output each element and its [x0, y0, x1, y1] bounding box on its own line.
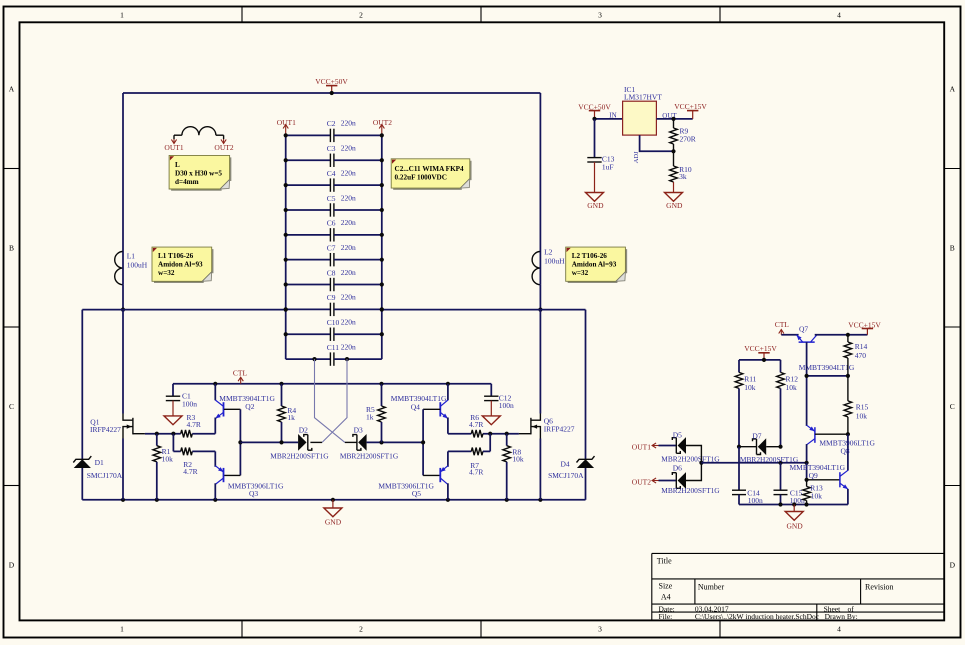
junctions CTL rail — [213, 382, 217, 386]
wire R15 to Q9 — [847, 434, 849, 470]
svg-text:Revision: Revision — [865, 582, 893, 591]
svg-text:C5: C5 — [327, 194, 336, 203]
transistor Q7 MMBT3904LT1G — [799, 341, 815, 343]
transistor Q2 MMBT3904LT1G — [223, 402, 225, 416]
inductor L2 — [532, 252, 540, 285]
junctions cap bank buses — [284, 133, 288, 137]
wire OUT1 node row — [82, 309, 285, 311]
svg-text:w=32: w=32 — [572, 269, 589, 277]
junction R11 D7 — [737, 445, 741, 449]
svg-text:B: B — [950, 244, 955, 253]
resistor R15 10k — [847, 376, 849, 401]
power port VCC+50V reg — [589, 110, 600, 112]
transistor Q3 MMBT3906LT1G — [223, 468, 225, 482]
wire D2 cathode — [310, 441, 322, 443]
junction R5 out — [379, 440, 383, 444]
svg-text:C2...C11 WIMA FKP4: C2...C11 WIMA FKP4 — [395, 165, 465, 173]
svg-text:MBR2H200SFT1G: MBR2H200SFT1G — [340, 452, 399, 461]
ground C1 — [172, 401, 174, 416]
wire Q4 base — [423, 408, 440, 410]
wire Q8 to Q9 base — [806, 463, 808, 480]
wire driver out left — [240, 441, 298, 443]
wire D1 upper — [81, 310, 83, 460]
diode D3 MBR2H200SFT1G — [358, 434, 366, 451]
resistor R9 270R — [673, 119, 675, 128]
svg-text:100n: 100n — [499, 401, 514, 410]
svg-text:C8: C8 — [327, 268, 336, 277]
wire D3 cathode — [345, 441, 357, 443]
svg-text:100uH: 100uH — [544, 257, 565, 266]
svg-text:4.7R: 4.7R — [469, 420, 483, 429]
capacitor C12 100n — [490, 384, 492, 396]
port OUT2 cap bank — [381, 125, 383, 136]
svg-text:VCC+15V: VCC+15V — [848, 320, 881, 329]
svg-text:4.7R: 4.7R — [469, 468, 483, 477]
wire L1 to OUT1 node — [122, 285, 124, 310]
transistor Q8 MMBT3906LT1G — [814, 427, 816, 443]
svg-text:C10: C10 — [327, 318, 340, 327]
svg-text:2: 2 — [359, 11, 363, 20]
svg-text:B: B — [9, 244, 14, 253]
wire Q5 collector — [447, 483, 449, 500]
svg-text:Q8: Q8 — [841, 447, 850, 456]
ground ctl — [793, 505, 795, 512]
svg-text:D1: D1 — [95, 458, 104, 467]
resistor R4 1k — [281, 384, 283, 406]
wire D1 lower — [81, 468, 83, 500]
resistor R3 4.7R — [181, 430, 193, 438]
svg-text:VCC+50V: VCC+50V — [315, 77, 348, 86]
svg-text:VCC+15V: VCC+15V — [674, 102, 707, 111]
svg-text:220n: 220n — [341, 144, 356, 153]
port OUT2 coil — [223, 135, 225, 139]
svg-text:100uH: 100uH — [127, 260, 148, 269]
resistor R14 470 — [847, 335, 849, 342]
wire Q5 emitter — [447, 451, 449, 466]
junction D5 D6 — [699, 461, 703, 465]
resistor R10 3k — [673, 151, 675, 166]
junction top rail VCC — [330, 91, 334, 95]
wire base tie right — [422, 409, 424, 475]
svg-text:MBR2H200SFT1G: MBR2H200SFT1G — [270, 452, 329, 461]
junction reg out — [671, 117, 675, 121]
svg-text:100n: 100n — [182, 400, 197, 409]
svg-text:L: L — [175, 161, 180, 169]
wire D4 lower — [585, 468, 587, 500]
wire R14 cross — [807, 375, 848, 377]
wire cap bank left bus — [285, 135, 287, 359]
power port VCC+15V reg — [687, 110, 698, 112]
wire Q7 collector — [815, 334, 868, 336]
svg-text:GND: GND — [666, 201, 683, 210]
wire driver out right — [367, 441, 424, 443]
capacitor C9 220n — [286, 308, 331, 310]
resistor R5 1k — [381, 384, 383, 406]
wire OUT2 to D6 — [659, 480, 677, 482]
svg-text:MMBT3904LT1G: MMBT3904LT1G — [391, 394, 447, 403]
wire Q3 base — [224, 474, 241, 476]
wire Q6 drain — [539, 310, 541, 414]
svg-text:1uF: 1uF — [602, 163, 614, 172]
resistor R11 10k — [738, 360, 740, 373]
wire cross right — [322, 359, 347, 442]
svg-text:Q2: Q2 — [245, 402, 254, 411]
junctions bottom rail — [121, 498, 125, 502]
wire OUT1 to D5 — [659, 445, 677, 447]
wire D5 anode — [686, 446, 701, 463]
resistor R13 10k — [806, 480, 808, 487]
wire Q9 base — [807, 479, 840, 481]
svg-text:L2: L2 — [544, 248, 553, 257]
wire Q3 collector — [214, 483, 216, 500]
wire Q7 base — [806, 342, 808, 426]
svg-text:Q9: Q9 — [809, 471, 818, 480]
svg-text:10k: 10k — [162, 455, 174, 464]
svg-text:D5: D5 — [673, 431, 682, 440]
note capacitor bank — [393, 161, 471, 189]
svg-text:CTL: CTL — [233, 368, 248, 377]
border zone tick marks — [241, 7, 243, 23]
junction R12 row — [778, 461, 782, 465]
resistor R2 4.7R — [173, 450, 180, 452]
svg-text:SMCJ170A: SMCJ170A — [548, 471, 584, 480]
wire Q4 emitter — [447, 418, 449, 434]
junction R12 D7 — [778, 445, 782, 449]
junction base tie right — [421, 440, 425, 444]
svg-text:220n: 220n — [341, 193, 356, 202]
wire ctl bottom rail — [739, 504, 848, 506]
svg-text:VCC+50V: VCC+50V — [578, 103, 611, 112]
svg-text:C4: C4 — [327, 169, 336, 178]
svg-text:1: 1 — [120, 625, 124, 634]
svg-text:D: D — [950, 561, 956, 570]
svg-text:OUT1: OUT1 — [277, 118, 296, 127]
wire VCC+50V top rail — [123, 92, 540, 94]
note L2 — [568, 249, 627, 282]
wire left bus upper — [122, 93, 124, 252]
ground main — [332, 500, 334, 508]
wire base tie left — [239, 409, 241, 475]
svg-text:D7: D7 — [752, 432, 761, 441]
svg-text:L2 T106-26: L2 T106-26 — [572, 252, 608, 260]
junctions ctl bottom — [778, 502, 782, 506]
svg-text:220n: 220n — [341, 119, 356, 128]
svg-text:R11: R11 — [744, 374, 756, 383]
port OUT1 cap bank — [285, 125, 287, 136]
svg-text:MBR2H200SFT1G: MBR2H200SFT1G — [661, 486, 720, 495]
svg-text:A: A — [950, 85, 956, 94]
junction R14 R15 — [846, 374, 850, 378]
svg-text:OUT2: OUT2 — [214, 143, 233, 152]
junction Q8 coll — [805, 461, 809, 465]
junction gate R1 — [155, 432, 159, 436]
svg-text:IRFP4227: IRFP4227 — [544, 424, 575, 433]
diode D4 SMCJ170A — [577, 459, 594, 468]
capacitor C15 100n — [774, 489, 788, 491]
ground C12 — [490, 401, 492, 416]
svg-text:220n: 220n — [341, 318, 356, 327]
svg-text:Title: Title — [657, 557, 672, 566]
wire Q5 base — [423, 474, 440, 476]
transistor Q6 IRFP4227 — [530, 418, 532, 435]
wire gate Q6 row — [448, 433, 471, 435]
svg-text:10k: 10k — [786, 383, 798, 392]
svg-text:ADJ: ADJ — [633, 151, 640, 163]
wire ADJ — [640, 135, 674, 151]
wire Q6 source — [539, 439, 541, 500]
svg-text:10k: 10k — [512, 454, 524, 463]
svg-text:220n: 220n — [341, 243, 356, 252]
svg-text:d=4mm: d=4mm — [175, 178, 199, 186]
junction C11 left tap — [312, 357, 316, 361]
resistor R12 10k — [780, 360, 782, 373]
wire R11 to C14 — [738, 447, 740, 491]
svg-text:C:\Users\..\2kW induction heat: C:\Users\..\2kW induction heater.SchDoc — [695, 612, 820, 621]
svg-text:Q4: Q4 — [411, 403, 420, 412]
svg-text:470: 470 — [855, 351, 867, 360]
capacitor C14 100n — [732, 489, 746, 491]
diode D6 MBR2H200SFT1G — [678, 472, 686, 489]
svg-text:GND: GND — [325, 518, 342, 527]
svg-text:A4: A4 — [661, 592, 671, 601]
svg-text:SMCJ170A: SMCJ170A — [87, 471, 123, 480]
wire R12 to C15 — [780, 463, 782, 490]
junction OUT row right bus — [380, 308, 384, 312]
svg-text:GND: GND — [786, 522, 803, 531]
svg-text:OUT1: OUT1 — [164, 143, 183, 152]
svg-text:D2: D2 — [299, 426, 308, 435]
wire Q2 emitter — [214, 418, 216, 434]
svg-text:3: 3 — [598, 625, 602, 634]
svg-text:GND: GND — [587, 201, 604, 210]
svg-text:R12: R12 — [786, 374, 799, 383]
svg-text:1k: 1k — [287, 413, 295, 422]
wire Q9 emitter — [847, 489, 849, 505]
junction Q7 base — [805, 374, 809, 378]
svg-text:C9: C9 — [327, 293, 336, 302]
svg-text:1k: 1k — [366, 413, 374, 422]
svg-text:C: C — [9, 402, 14, 411]
wire Q4 collector — [447, 384, 449, 401]
resistor R8 10k — [506, 434, 508, 446]
svg-text:D4: D4 — [561, 460, 570, 469]
capacitor C8 220n — [286, 284, 331, 286]
junction OUT1 node — [121, 308, 125, 312]
svg-text:A: A — [9, 85, 15, 94]
svg-text:R14: R14 — [855, 342, 868, 351]
svg-text:D6: D6 — [673, 463, 682, 472]
port CTL — [240, 377, 242, 384]
junction R4 out — [279, 440, 283, 444]
diode D1 SMCJ170A — [74, 459, 91, 468]
wire Q7 emitter — [781, 334, 798, 336]
svg-text:VCC+15V: VCC+15V — [744, 344, 777, 353]
wire Q8 collector — [806, 444, 808, 463]
junction Q8 base — [846, 432, 850, 436]
svg-text:C7: C7 — [327, 243, 336, 252]
capacitor C7 220n — [286, 259, 331, 261]
svg-text:C11: C11 — [327, 343, 339, 352]
svg-text:C2: C2 — [327, 119, 336, 128]
svg-text:270R: 270R — [680, 135, 696, 144]
svg-text:220n: 220n — [341, 168, 356, 177]
capacitor C5 220n — [286, 209, 331, 211]
svg-text:4: 4 — [837, 11, 841, 20]
wire bottom GND rail — [82, 499, 585, 501]
svg-text:OUT2: OUT2 — [632, 477, 651, 486]
junction OUT row left bus — [284, 308, 288, 312]
wire cap bank right bus — [381, 135, 383, 359]
svg-text:L1 T106-26: L1 T106-26 — [158, 252, 194, 260]
svg-text:D: D — [9, 561, 15, 570]
svg-text:MMBT3906LT1G: MMBT3906LT1G — [378, 481, 434, 490]
resistor R1 10k — [156, 434, 158, 446]
port CTL out — [780, 330, 782, 335]
svg-text:220n: 220n — [341, 218, 356, 227]
wire R2 drop — [172, 434, 174, 452]
transistor Q9 MMBT3904LT1G — [839, 472, 841, 487]
wire right bus upper — [539, 93, 541, 252]
junction reg input — [592, 117, 596, 121]
svg-text:C6: C6 — [327, 219, 336, 228]
svg-text:Amidon Al=93: Amidon Al=93 — [572, 261, 617, 269]
capacitor C3 220n — [286, 159, 331, 161]
svg-text:2: 2 — [359, 625, 363, 634]
diode D2 MBR2H200SFT1G — [298, 434, 306, 451]
svg-text:220n: 220n — [341, 268, 356, 277]
svg-text:LM317HVT: LM317HVT — [624, 93, 662, 102]
svg-text:OUT2: OUT2 — [373, 118, 392, 127]
svg-text:IRFP4227: IRFP4227 — [90, 425, 121, 434]
capacitor C1 100n — [172, 384, 174, 396]
svg-text:C3: C3 — [327, 144, 336, 153]
junction gate R7 — [488, 432, 492, 436]
svg-text:OUT1: OUT1 — [632, 442, 651, 451]
svg-text:File:: File: — [659, 612, 673, 621]
wire reg out — [656, 118, 692, 120]
diode D7 MBR2H200SFT1G — [739, 446, 757, 448]
wire reg input — [595, 118, 623, 120]
svg-text:3k: 3k — [679, 172, 687, 181]
svg-text:Q5: Q5 — [412, 489, 421, 498]
svg-text:Size: Size — [659, 581, 673, 590]
wire Q2 collector — [214, 384, 216, 401]
wire R7 drop — [489, 434, 491, 452]
junction C11 right tap — [345, 357, 349, 361]
svg-text:IN: IN — [609, 111, 616, 119]
wire Q1 source — [122, 439, 124, 500]
svg-text:10k: 10k — [856, 412, 868, 421]
wire diode row — [701, 462, 806, 464]
svg-text:Drawn By:: Drawn By: — [825, 612, 858, 621]
transistor Q5 MMBT3906LT1G — [439, 468, 441, 482]
power port VCC+15V ctl — [758, 352, 769, 354]
svg-text:4: 4 — [837, 625, 841, 634]
capacitor C6 220n — [286, 234, 331, 236]
junction R14 top — [846, 333, 850, 337]
svg-text:C: C — [950, 402, 955, 411]
inductor L work coil — [174, 134, 182, 136]
svg-text:220n: 220n — [341, 342, 356, 351]
transistor Q4 MMBT3904LT1G — [439, 402, 441, 416]
note L1 — [154, 249, 213, 282]
svg-text:3: 3 — [598, 11, 602, 20]
capacitor C2 220n — [286, 134, 331, 136]
junction gate R2 — [171, 432, 175, 436]
port OUT1 coil — [173, 135, 175, 139]
svg-text:4.7R: 4.7R — [183, 467, 197, 476]
wire cross left — [315, 359, 345, 442]
svg-text:220n: 220n — [341, 293, 356, 302]
wire Q1 drain — [122, 310, 124, 414]
power port VCC+15V q7 — [862, 328, 873, 330]
capacitor C13 1uF — [594, 119, 596, 158]
junction ADJ — [671, 149, 675, 153]
svg-text:Q3: Q3 — [249, 489, 258, 498]
capacitor C4 220n — [286, 184, 331, 186]
svg-text:Amidon Al=93: Amidon Al=93 — [158, 261, 203, 269]
junction Q9 base node — [805, 478, 809, 482]
diode D5 MBR2H200SFT1G — [678, 437, 686, 454]
svg-text:R15: R15 — [856, 403, 869, 412]
transistor Q1 IRFP4227 — [132, 418, 134, 435]
capacitor C10 220n — [286, 333, 331, 335]
wire CTL rail — [173, 383, 491, 385]
note work coil — [171, 157, 231, 190]
wire Q2 base — [224, 408, 241, 410]
svg-text:D3: D3 — [354, 426, 363, 435]
wire R11 R12 rail — [739, 359, 781, 361]
svg-text:10k: 10k — [744, 383, 756, 392]
capacitor C11 220n — [286, 358, 331, 360]
wire OUT2 node row — [382, 309, 541, 311]
port OUT2 ctl — [652, 480, 658, 482]
svg-text:Number: Number — [698, 582, 725, 591]
svg-text:1: 1 — [120, 11, 124, 20]
svg-text:4.7R: 4.7R — [187, 420, 201, 429]
svg-text:L1: L1 — [127, 252, 136, 261]
power port VCC+50V — [326, 85, 337, 87]
svg-text:w=32: w=32 — [158, 269, 175, 277]
ground R10 — [665, 193, 683, 202]
inductor L1 — [115, 252, 123, 285]
resistor R6 4.7R — [471, 430, 483, 438]
wire L2 to OUT2 node — [539, 285, 541, 310]
wire D6 anode — [686, 463, 701, 481]
svg-text:D30 x H30 w=5: D30 x H30 w=5 — [175, 170, 222, 178]
svg-text:0.22uF 1000VDC: 0.22uF 1000VDC — [395, 173, 447, 181]
wire Q8 base — [815, 433, 848, 435]
svg-text:CTL: CTL — [775, 320, 790, 329]
resistor R7 4.7R — [448, 450, 471, 452]
ic IC1 LM317HVT — [623, 101, 657, 135]
wire gate Q1 — [145, 433, 181, 435]
junction vcc rail — [762, 358, 766, 362]
port OUT1 ctl — [652, 445, 658, 447]
wire Q3 emitter — [214, 451, 216, 466]
junction base tie left — [238, 440, 242, 444]
wire OUT2 to D4 — [540, 309, 585, 311]
svg-text:10k: 10k — [811, 491, 823, 500]
svg-text:Q7: Q7 — [799, 325, 808, 334]
ground C13 — [594, 162, 596, 193]
junction OUT2 node — [538, 308, 542, 312]
title block frame — [652, 552, 944, 554]
junction gate R8 — [505, 432, 509, 436]
